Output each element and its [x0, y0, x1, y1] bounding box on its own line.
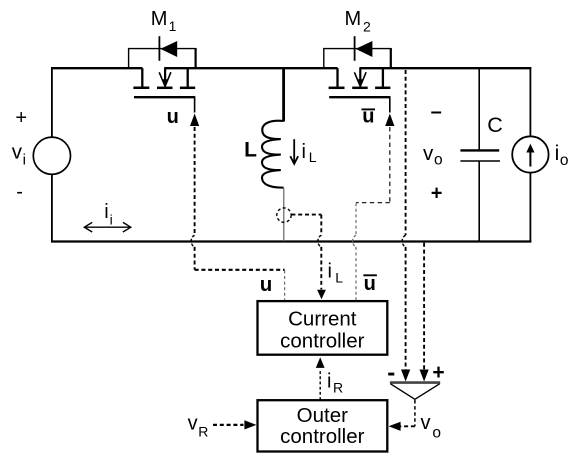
arrow: i_L direction at inductor: [290, 139, 298, 164]
wire: bottom rail: [51, 240, 531, 242]
svg-text:controller: controller: [280, 425, 364, 448]
svg-text:i: i: [302, 141, 306, 163]
label u-bar (M2 gate): [362, 105, 376, 127]
svg-text:R: R: [333, 379, 343, 395]
block: Outer controller: [258, 400, 388, 451]
svg-text:–: –: [431, 101, 442, 123]
dashed control line u (M1 gate to current controller): [190, 114, 285, 301]
svg-text:L: L: [309, 149, 317, 165]
svg-text:Current: Current: [288, 307, 357, 330]
wire: left rail (v_i branch): [51, 67, 53, 242]
MOSFET M2: [329, 68, 391, 112]
wire: top rail left segment: [51, 67, 143, 69]
svg-text:L: L: [244, 138, 257, 161]
svg-text:u: u: [260, 273, 273, 296]
wire: top rail middle segment (switching node): [164, 67, 337, 69]
MOSFET M1: [133, 68, 195, 112]
dashed v_R reference line into outer controller: [213, 420, 256, 429]
dashed i_L sense line to current controller: [291, 215, 326, 300]
wire: inductor top lead: [282, 68, 285, 121]
svg-text:L: L: [335, 269, 343, 285]
svg-text:-: -: [16, 181, 23, 203]
dashed v_o feedback line to outer controller: [389, 400, 415, 431]
svg-text:u: u: [364, 273, 376, 295]
dashed v_o sense line (positive, from bottom rail to comparator): [420, 243, 429, 382]
inductor L: [262, 121, 284, 188]
svg-text:R: R: [198, 424, 208, 440]
svg-text:i: i: [104, 201, 108, 223]
voltage source v_i: [33, 137, 70, 174]
svg-text:i: i: [110, 211, 113, 227]
svg-text:controller: controller: [280, 329, 364, 352]
svg-text:v: v: [188, 413, 198, 435]
svg-text:M: M: [345, 8, 362, 30]
dashed v_o sense line (negative, from top rail to comparator): [401, 70, 410, 382]
svg-text:v: v: [423, 142, 434, 165]
svg-text:i: i: [328, 260, 332, 282]
block: Current controller: [258, 301, 388, 355]
current source i_o: [512, 136, 548, 172]
svg-text:M: M: [151, 8, 168, 30]
dashed i_R line (outer to current controller): [316, 357, 325, 400]
svg-text:+: +: [431, 183, 443, 205]
wire: inductor bottom lead: [283, 188, 285, 242]
svg-text:i: i: [555, 142, 560, 165]
svg-text:v: v: [421, 412, 431, 434]
svg-text:i: i: [23, 152, 26, 169]
arrow: i_i double-headed: [84, 222, 131, 232]
body diode of M2: [324, 36, 391, 68]
svg-text:o: o: [432, 424, 441, 441]
svg-text:Outer: Outer: [297, 404, 348, 427]
svg-text:i: i: [327, 370, 331, 392]
dashed control line u-bar (M2 gate to current controller): [353, 114, 395, 301]
comparator (v_o summing triangle): [390, 383, 440, 400]
capacitor C: [460, 68, 500, 241]
svg-text:v: v: [12, 140, 23, 163]
label u-bar (current controller output): [363, 273, 377, 295]
current sensor (dashed circle): [277, 208, 291, 222]
svg-text:o: o: [560, 152, 569, 169]
body diode of M1: [129, 36, 196, 68]
svg-text:2: 2: [363, 19, 371, 35]
svg-text:1: 1: [169, 18, 177, 34]
wire: right rail: [529, 67, 531, 242]
svg-text:C: C: [487, 113, 503, 137]
svg-text:o: o: [434, 152, 443, 169]
svg-text:+: +: [15, 107, 27, 129]
svg-text:+: +: [432, 361, 444, 384]
wire: top rail right segment: [359, 67, 531, 69]
svg-text:u: u: [167, 106, 179, 128]
